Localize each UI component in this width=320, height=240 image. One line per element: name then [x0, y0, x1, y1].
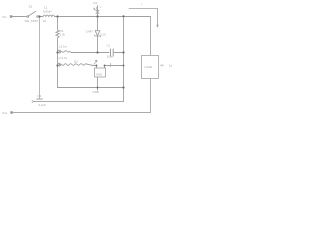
svg-text:L2 1m: L2 1m [59, 44, 68, 48]
svg-text:D1: D1 [94, 1, 98, 5]
svg-text:I: I [141, 2, 142, 6]
svg-text:1A: 1A [43, 19, 47, 23]
svg-text:1N47: 1N47 [86, 30, 93, 34]
svg-text:L2 4.7u: L2 4.7u [58, 56, 68, 60]
svg-text:0.1uF: 0.1uF [39, 103, 47, 107]
svg-text:4R: 4R [160, 64, 164, 68]
svg-text:LOAD: LOAD [145, 65, 153, 69]
svg-text:Q1: Q1 [74, 60, 78, 64]
svg-text:Vss: Vss [2, 111, 8, 115]
svg-text:100uH: 100uH [43, 10, 52, 14]
svg-text:S1: S1 [29, 4, 33, 8]
svg-text:1.2k: 1.2k [60, 33, 66, 37]
svg-text:SW_SPST: SW_SPST [25, 19, 39, 23]
svg-text:5.1V: 5.1V [100, 33, 106, 37]
svg-text:1k: 1k [169, 64, 173, 68]
svg-text:100n: 100n [107, 55, 114, 59]
svg-text:x: x [100, 6, 102, 9]
svg-text:C1: C1 [107, 44, 111, 48]
svg-text:Vin: Vin [2, 15, 7, 19]
svg-text:GND: GND [96, 73, 102, 77]
svg-text:C2: C2 [38, 94, 42, 98]
svg-text:GND: GND [93, 90, 99, 94]
